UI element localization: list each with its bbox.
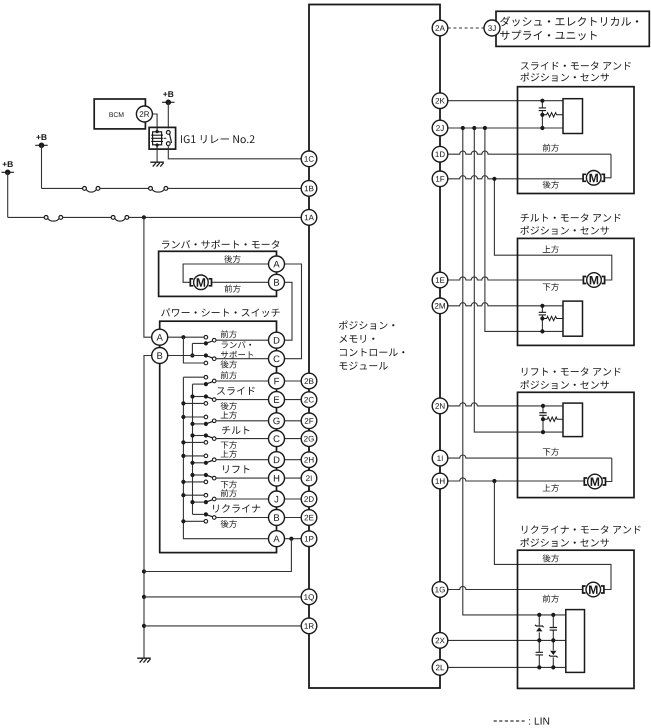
wire BCM 2R to relay coil (152, 114, 157, 129)
wire pivot stub (D) (193, 462, 204, 464)
contact output (D) (212, 458, 216, 462)
wire contact to pin C (216, 358, 269, 360)
wire recliner left branch upper (538, 615, 540, 641)
wire pin A to module 1P (284, 538, 301, 540)
wire 1G to recliner motor (fwd) (448, 586, 583, 589)
+B power feed (relay) (162, 100, 174, 106)
wire 2X to recliner sensor (448, 639, 566, 641)
wire recliner right branch lower (552, 640, 554, 667)
label lumbar line2 (221, 351, 253, 359)
wire 1E to tilt motor (down) (448, 277, 584, 280)
junction 1F / tilt-up branch (492, 177, 496, 181)
contact output (E) (212, 398, 216, 402)
connector pin 2E (module left) (301, 510, 317, 526)
label up (tilt sw) (221, 411, 237, 419)
connector pin 1E (module right) (432, 272, 448, 288)
motor M (slide) (583, 174, 604, 181)
contact fixed (J) (204, 493, 208, 497)
junction recliner sensor right top (551, 613, 555, 617)
motor M (lumbar support) (190, 279, 211, 286)
wire pin B to module (284, 517, 301, 519)
switch arm (E) (206, 397, 212, 399)
connector pin A out (seat switch) (269, 531, 285, 547)
junction fixed bus (D) (181, 454, 185, 458)
label dash unit line2 (500, 30, 597, 40)
connector pin B (lumbar motor) (269, 274, 285, 290)
zener diode (recliner left upper) (535, 625, 544, 632)
junction pivot bus (J) (190, 500, 194, 504)
wire sensor col (tilt) (541, 315, 543, 331)
wire pivot stub (F) (193, 383, 204, 385)
ground (seat circuits) (137, 658, 151, 662)
contact fixed (B) (204, 520, 208, 524)
wire lumbar pivot link (192, 343, 204, 355)
in-line connector (1B wire a) (83, 187, 100, 193)
contact fixed (F) (204, 375, 208, 379)
contact output (H) (212, 476, 216, 480)
junction pivot bus (H) (190, 473, 194, 477)
wire 1I corner to lift motor (606, 458, 612, 481)
contact fixed (H) (204, 480, 208, 484)
wire pin H to module (284, 477, 301, 479)
label module title line1 (339, 321, 395, 330)
contact fixed (G) (204, 415, 208, 419)
junction fixed bus (E) (181, 401, 185, 405)
connector pin 3J (dash unit) (484, 20, 500, 36)
label dash unit line1 (500, 16, 638, 26)
wire 1D corner to slide motor (604, 154, 611, 178)
connector pin 2R (BCM) (136, 106, 152, 122)
junction pivot bus (C) (190, 433, 194, 437)
resistor (tilt sensor) (543, 316, 563, 320)
label slide box title1 (521, 61, 631, 70)
connector pin 2J (module right) (432, 120, 448, 136)
junction sensor top (slide) (540, 99, 544, 103)
wire pivot stub (B) (193, 513, 204, 515)
capacitor (recliner left lower) (536, 652, 543, 655)
contact output (B) (212, 516, 216, 520)
lumbar support motor box (159, 251, 277, 296)
contact pivot (B) (204, 512, 208, 516)
junction 1H / recliner-rear branch (492, 479, 496, 483)
connector pin 1B (module left) (301, 181, 317, 197)
label down (tilt) (543, 283, 559, 291)
contact pivot (J) (204, 500, 208, 504)
recliner motor and position sensor box (518, 550, 635, 688)
junction 2J bus 2 (472, 126, 476, 130)
wire pivot stub (G) (193, 423, 204, 425)
wire pin D to module (284, 459, 301, 461)
junction A feed bus (181, 335, 185, 339)
junction sensor mid (slide) (540, 113, 544, 117)
junction pivot bus (E) (190, 394, 194, 398)
wire switch pin B to ground rail (144, 356, 160, 658)
connector pin 2C (module left) (301, 392, 317, 408)
connector pin 2K (module right) (432, 93, 448, 109)
label forward (recliner sw) (221, 489, 237, 497)
junction sensor bottom (lift) (541, 430, 545, 434)
junction sensor top (tilt) (540, 304, 544, 308)
contact pivot (H) (204, 473, 208, 477)
contact pivot (lumbar fwd) (204, 341, 208, 345)
contact pivot (F) (204, 382, 208, 386)
connector pin 1Q (module left) (301, 589, 317, 605)
switch arm (B) (206, 514, 212, 516)
wire +B to 1A feed (7, 172, 9, 217)
wire 1F to slide motor (rear) (448, 176, 583, 179)
wire fixed stub (E) (183, 402, 204, 404)
connector pin C (seat switch) (269, 431, 285, 447)
switch arm (G) (206, 422, 212, 424)
wire bus 2J to lift sensor bottom (474, 128, 563, 432)
wire bus 2J to recliner sensor top (463, 128, 566, 615)
wire 1D to slide motor (fwd) (448, 151, 611, 154)
connector pin 1C (module left) (301, 151, 317, 167)
wire 2L to recliner sensor (448, 666, 566, 668)
connector pin 2M (module right) (432, 298, 448, 314)
lift position sensor body (563, 403, 583, 437)
connector pin E (seat switch) (269, 392, 285, 408)
label forward (slide sw) (221, 371, 237, 379)
junction recliner sensor right bottom (551, 665, 555, 669)
connector pin 1D (module right) (432, 146, 448, 162)
junction 2J bus 1 (461, 126, 465, 130)
label up (lift sw) (221, 450, 237, 458)
junction fixed bus (G) (181, 415, 185, 419)
junction fixed bus (J) (181, 493, 185, 497)
wire 2K to slide sensor (448, 100, 563, 102)
relay contact (164, 131, 172, 146)
switch arm (H) (206, 475, 212, 477)
connector pin A (seat switch) (152, 329, 168, 345)
label power seat switch title (161, 308, 280, 317)
in-line connector (1A wire b) (111, 216, 129, 222)
position memory control module box (309, 5, 440, 689)
wire pivot stub (J) (193, 501, 204, 503)
capacitor (recliner right upper) (550, 628, 557, 631)
connector pin 2A (module right) (432, 20, 448, 36)
connector pin 2D (module left) (301, 491, 317, 507)
+B power feed (middle) (35, 143, 47, 149)
label rearward (switch lumbar) (221, 360, 237, 368)
wire contact to pin F (216, 380, 269, 382)
wire A/1P junction to ground rail (144, 539, 291, 572)
label lift box title2 (520, 380, 609, 389)
contact pivot (lumbar rear) (204, 353, 208, 357)
wire contact to pin H (216, 477, 269, 479)
label lift box title1 (522, 367, 621, 376)
ground (relay coil) (150, 162, 164, 166)
relay IG1 No.2 box (149, 127, 176, 149)
contact output (C) (212, 437, 216, 441)
label slide box title2 (520, 73, 609, 82)
capacitor (tilt sensor) (539, 312, 546, 315)
connector pin 2F (module left) (301, 413, 317, 429)
resistor (slide sensor) (543, 113, 563, 117)
junction fixed bus (C) (181, 440, 185, 444)
wire sensor cap top (tilt) (541, 306, 543, 313)
junction A/1P to ground return (289, 537, 293, 541)
label rearward (slide sw) (221, 402, 237, 410)
connector pin 2N (module right) (432, 398, 448, 414)
connector pin A (lumbar motor) (269, 256, 285, 272)
contact fixed (lumbar fwd) (204, 335, 208, 339)
contact output (to D) (212, 338, 216, 342)
motor M (recliner) (583, 586, 604, 593)
wire relay contact to pin 1C (168, 146, 309, 159)
junction recliner sensor left top (537, 613, 541, 617)
label tilt group (222, 426, 250, 434)
connector pin 1P (module left) (301, 531, 317, 547)
connector pin C (seat switch) (269, 351, 285, 367)
relay coil (151, 129, 163, 150)
label rearward (recliner) (543, 554, 559, 562)
slide motor and position sensor box (518, 87, 635, 194)
wire +B to relay contact (167, 102, 169, 128)
wire pin E to module (284, 399, 301, 401)
wire 1H to lift motor (up) (448, 478, 585, 481)
label rearward (slide) (543, 181, 559, 189)
connector pin F (seat switch) (269, 373, 285, 389)
wire 1R (144, 625, 309, 627)
junction ground rail / 1R (142, 624, 146, 628)
contact output (F) (212, 379, 216, 383)
label rearward (lumbar) (224, 255, 240, 263)
junction ground rail / 1Q (142, 595, 146, 599)
wire 1Q (144, 596, 309, 598)
recliner position sensor body (566, 610, 585, 673)
wire sensor col (slide) (541, 111, 543, 128)
wire 1A seg1 (8, 216, 45, 218)
junction fixed bus (B) (181, 519, 185, 523)
contact fixed (D) (204, 454, 208, 458)
junction sensor mid (tilt) (540, 316, 544, 320)
contact output (G) (212, 419, 216, 423)
legend LIN text (529, 718, 549, 725)
in-line connector (1A wire a) (44, 216, 63, 222)
wire fixed stub (B) (183, 520, 204, 522)
label up (lift) (543, 484, 559, 492)
wire switch B feed (168, 355, 204, 357)
junction sensor top (lift) (541, 404, 545, 408)
wire sensor cap top (slide) (541, 101, 543, 108)
junction sensor mid (lift) (541, 417, 545, 421)
contact fixed (lumbar rear) (204, 361, 208, 365)
wire fixed stub (C) (183, 441, 204, 443)
junction fixed bus (H) (181, 480, 185, 484)
wire 1B seg2 (100, 187, 149, 189)
connector pin 2G (module left) (301, 431, 317, 447)
contact pivot (E) (204, 394, 208, 398)
dash electrical supply unit box (496, 11, 649, 46)
wire contact to pin B (216, 517, 269, 519)
wire contact to pin C (216, 438, 269, 440)
wire 1I to lift motor (down) (448, 455, 612, 458)
label module title line4 (340, 362, 388, 370)
connector pin 1H (module right) (432, 473, 448, 489)
label tilt box title2 (520, 226, 609, 235)
slide position sensor body (563, 99, 583, 134)
wire fixed stub (G) (183, 416, 204, 418)
motor M (lift) (584, 478, 605, 485)
capacitor (lift sensor) (539, 413, 546, 416)
connector pin 1G (module right) (432, 582, 448, 598)
connector pin J (seat switch) (269, 491, 285, 507)
label up (tilt) (543, 245, 559, 253)
label forward (slide) (543, 144, 559, 152)
zener diode (recliner right lower) (549, 651, 558, 658)
label slide group (217, 387, 255, 395)
contact pivot (C) (204, 433, 208, 437)
wire fixed stub (F) (183, 376, 204, 378)
wire lumbar B to switch D (277, 282, 293, 340)
contact output (J) (212, 497, 216, 501)
connector pin 2H (module left) (301, 452, 317, 468)
junction 2J bus 3 (483, 126, 487, 130)
switch arm (J) (206, 500, 212, 502)
wire pin C to module (284, 438, 301, 440)
label module title line2 (339, 335, 374, 343)
wire bus 2J to tilt sensor bottom (485, 128, 563, 331)
contact fixed (C) (204, 441, 208, 445)
wire pin J to module (284, 498, 301, 500)
wire +B to 1B feed (41, 145, 43, 188)
label recliner box title2 (520, 538, 609, 547)
label module title line3 (340, 348, 405, 356)
junction 1A feed to seat switch (142, 215, 146, 219)
label forward (lumbar) (225, 285, 241, 293)
wire recliner right branch upper (552, 615, 554, 641)
legend LIN dash sample (494, 720, 525, 722)
wire switch A feed (168, 336, 205, 338)
junction recliner sensor left bottom (537, 665, 541, 669)
connector pin H (seat switch) (269, 470, 285, 486)
lift motor and position sensor box (518, 392, 635, 497)
switch arm (lumbar fwd) (206, 341, 212, 343)
wire contact to pin J (216, 498, 269, 500)
wire lumbar A to switch C (277, 264, 302, 359)
connector pin B (seat switch) (269, 510, 285, 526)
wire lumbar A to motor (183, 264, 269, 282)
wire 1H branch to recliner motor (rear) (494, 481, 611, 590)
label IG1 relay No.2 (181, 135, 254, 143)
label down (lift) (543, 448, 559, 456)
connector pin D (seat switch) (269, 332, 285, 348)
connector pin 1A (module left) (301, 210, 317, 226)
BCM module box (94, 99, 145, 129)
junction ground rail / 1P return (142, 569, 146, 573)
wire recliner left branch lower (538, 640, 540, 667)
wire lumbar motor to B (212, 281, 269, 283)
wire sensor col (lift) (542, 415, 544, 432)
junction pivot link / B feed (190, 353, 194, 357)
power seat switch box (160, 321, 277, 552)
switch arm (F) (206, 382, 212, 384)
contact fixed (E) (204, 402, 208, 406)
wire 1B seg3 (168, 187, 309, 189)
label lumbar line1 (222, 341, 252, 348)
connector pin 1I (module right) (432, 450, 448, 466)
wire switch return bus (pivots) (192, 384, 194, 514)
wire A bus to lumbar rear fixed contact (183, 337, 204, 363)
connector pin D (seat switch) (269, 452, 285, 468)
wire 1F branch to tilt motor (up) (494, 179, 611, 280)
wire contact to pin D (216, 339, 269, 341)
motor M (tilt) (583, 277, 604, 284)
label forward (switch lumbar) (221, 330, 237, 338)
connector pin G (seat switch) (269, 413, 285, 429)
wire relay coil to ground (156, 149, 158, 162)
label forward (recliner) (543, 595, 559, 603)
wire pivot stub (H) (193, 474, 204, 476)
wire 1B seg1 (42, 187, 83, 189)
label down (lift sw) (221, 480, 237, 488)
wire pin G to module (284, 420, 301, 422)
in-line connector (1B wire b) (149, 187, 168, 193)
junction recliner sensor right mid (551, 638, 555, 642)
wire LIN bus 2A to 3J (448, 27, 484, 29)
switch arm (C) (206, 436, 212, 438)
contact pivot (D) (204, 461, 208, 465)
wire fixed stub (J) (183, 494, 204, 496)
label tilt box title1 (521, 213, 621, 222)
label recliner box title1 (522, 525, 641, 534)
connector pin 2L (module right) (432, 660, 448, 676)
junction sensor bottom (tilt) (540, 329, 544, 333)
wire fixed stub (D) (183, 455, 204, 457)
wire 1A seg2 (63, 216, 112, 218)
wire fixed stub (H) (183, 481, 204, 483)
wire pin F to module (284, 380, 301, 382)
connector pin 2I (module left) (301, 470, 317, 486)
switch arm (lumbar rear) (206, 356, 212, 358)
wire contact to pin G (216, 420, 269, 422)
label recliner group (213, 504, 260, 513)
label lumbar support motor title (162, 240, 279, 249)
capacitor (slide sensor) (539, 108, 546, 111)
tilt motor and position sensor box (518, 238, 635, 345)
wire 1A junction down to switch pin A (144, 217, 160, 337)
wire sensor cap top (lift) (542, 406, 544, 413)
label lift group (223, 465, 249, 473)
+B power feed (left) (2, 170, 14, 176)
tilt position sensor body (563, 301, 583, 336)
contact pivot (G) (204, 422, 208, 426)
junction recliner sensor left mid (537, 638, 541, 642)
junction pivot bus (D) (190, 461, 194, 465)
BCM label (109, 112, 123, 117)
label rearward (recliner sw) (221, 520, 237, 528)
resistor (lift sensor) (544, 417, 563, 421)
connector pin 2X (module right) (432, 633, 448, 649)
connector pin B (seat switch) (152, 348, 168, 364)
junction pivot bus (G) (190, 422, 194, 426)
wire contact to pin E (216, 399, 269, 401)
wire 2M to tilt sensor (448, 303, 563, 306)
wire 2N to lift sensor (448, 403, 563, 406)
wire 1A seg3 (129, 216, 309, 218)
wire pivot stub (E) (193, 396, 204, 398)
switch arm (D) (206, 461, 212, 463)
label down (tilt sw) (221, 441, 237, 449)
connector pin 2B (module left) (301, 373, 317, 389)
wire contact to pin D (216, 459, 269, 461)
wire pivot stub (C) (193, 435, 204, 437)
connector pin 1F (module right) (432, 171, 448, 187)
connector pin 1R (module left) (301, 618, 317, 634)
wire switch supply bus (fixed contacts) to pin A (183, 377, 268, 539)
junction sensor bottom (slide) (540, 126, 544, 130)
